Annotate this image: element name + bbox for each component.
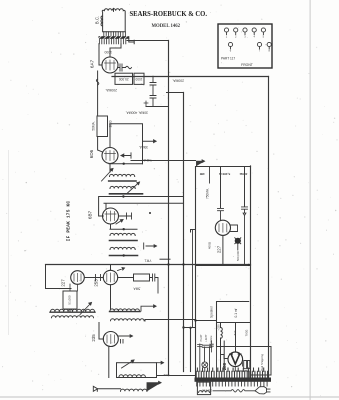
arrow 43 plate xyxy=(119,335,133,343)
wire rail horizontal y92 xyxy=(167,92,184,94)
wire y375 to strip xyxy=(157,375,196,377)
filter choke coil xyxy=(221,323,225,372)
capacitor plus mark xyxy=(144,101,148,107)
arrow into 6D6 plate xyxy=(121,153,131,158)
wire 43 cathode down xyxy=(108,346,110,378)
terminal strip teeth xyxy=(196,368,267,378)
IF transformer T2 primary xyxy=(109,174,136,181)
wire y203 xyxy=(104,203,184,209)
wire cell1 down xyxy=(220,167,222,209)
terminal strip lower teeth xyxy=(197,382,267,386)
resistor box R2 xyxy=(134,73,144,84)
IF transformer T3 top wire xyxy=(110,228,137,230)
capacitor at 6A7 plate xyxy=(118,64,126,71)
junction dot y320 xyxy=(194,319,196,321)
wire E55 cathode to osc coil xyxy=(110,285,112,309)
wire into 43 grid xyxy=(99,323,104,340)
arrow right of speaker coil xyxy=(147,381,161,391)
svg-text:B.C.: B.C. xyxy=(95,16,100,24)
output box xyxy=(117,363,157,378)
arrow 6B7 diode xyxy=(116,220,123,225)
svg-text:200MA.: 200MA. xyxy=(172,79,184,83)
tube 6A7 xyxy=(102,57,118,73)
IF transformer T3 secondary xyxy=(110,247,138,255)
junction dot box corner xyxy=(248,264,250,266)
tube 43 xyxy=(103,332,118,347)
wire grid lead to rail xyxy=(127,40,169,42)
svg-text:6: 6 xyxy=(230,49,232,53)
wire 227 down to box xyxy=(70,284,78,291)
svg-text:4: 4 xyxy=(253,35,255,39)
antenna coil core band xyxy=(99,36,130,39)
wire E55 to AVC bus xyxy=(110,265,112,271)
volume control blob xyxy=(235,238,241,244)
svg-text:500,000: 500,000 xyxy=(236,251,240,262)
capacitor marks at 211 xyxy=(210,341,214,352)
svg-text:0.1 mf: 0.1 mf xyxy=(234,308,238,317)
wire B+ horizontal y76 xyxy=(112,76,269,78)
wire antenna to 6A7 xyxy=(99,44,121,65)
wire 6D6 screen loop xyxy=(110,124,143,164)
svg-text:6D6: 6D6 xyxy=(89,149,94,158)
IF transformer T3 primary xyxy=(110,233,138,240)
capacitor after resistor xyxy=(150,274,159,293)
cathode loop 227b xyxy=(231,225,238,232)
svg-text:51,000: 51,000 xyxy=(68,295,72,305)
oscillator grid squiggle xyxy=(126,66,132,69)
wire rail vertical x183 xyxy=(183,93,185,372)
arrow at output box top xyxy=(157,361,164,364)
tube 227 second detector xyxy=(215,220,230,235)
svg-text:IF PEAK 175 KC: IF PEAK 175 KC xyxy=(65,201,71,242)
trimmer arrow osc xyxy=(80,303,92,315)
svg-text:5: 5 xyxy=(263,35,265,39)
svg-text:255: 255 xyxy=(94,279,99,287)
svg-text:LIGHT: LIGHT xyxy=(205,334,208,342)
wire under 6D6 xyxy=(109,163,143,165)
resistor box 50000 xyxy=(97,116,108,137)
svg-text:Y.M.A.: Y.M.A. xyxy=(143,158,152,162)
power transformer box xyxy=(197,382,210,395)
antenna coil core hatch xyxy=(99,36,128,39)
trimmer in output box xyxy=(122,360,135,368)
divider tick at 209 xyxy=(209,167,211,184)
wire 6D6 to IF2 xyxy=(109,164,111,173)
svg-text:Y.R1.: Y.R1. xyxy=(163,373,170,377)
svg-text:30MA. 400MA.: 30MA. 400MA. xyxy=(126,111,148,115)
wire 227b cathode down xyxy=(222,235,224,265)
tube E55 output xyxy=(103,270,117,284)
wire rail x192 segment xyxy=(192,230,194,328)
resistor box 51000 under 227 xyxy=(63,291,77,309)
capacitor with arrow xyxy=(242,207,248,265)
svg-text:1000: 1000 xyxy=(135,77,142,81)
scan artifact bottom edge xyxy=(0,396,339,398)
junction dots y327 xyxy=(182,326,191,329)
wire to rectifier anode xyxy=(235,323,237,352)
tube 227 oscillator xyxy=(71,271,85,285)
svg-text:3: 3 xyxy=(244,35,246,39)
svg-text:.5MA: .5MA xyxy=(133,287,141,291)
junction dot xyxy=(123,163,125,165)
scan artifact left edge xyxy=(7,150,10,335)
scan artifact right fold line xyxy=(310,0,311,400)
svg-text:6A7: 6A7 xyxy=(90,59,95,68)
svg-text:PILOT: PILOT xyxy=(200,334,203,342)
svg-text:50MA.: 50MA. xyxy=(91,121,95,130)
antenna coil secondary teeth xyxy=(99,39,125,44)
svg-text:+330: +330 xyxy=(217,324,221,331)
trimmer arrow IF2 primary xyxy=(102,169,114,182)
IF transformer T2 secondary xyxy=(110,186,143,193)
svg-text:6B7: 6B7 xyxy=(88,210,93,219)
pilot light capacitor marks xyxy=(198,345,212,348)
wire resistor to 6D6 xyxy=(98,137,103,153)
svg-text:YR1.: YR1. xyxy=(144,259,152,263)
speaker section box xyxy=(217,302,249,347)
wire rail vertical x190 xyxy=(190,328,192,372)
wire rail vertical x168 xyxy=(168,41,170,376)
pilot light stub wires xyxy=(200,344,210,371)
svg-text:30MA.: 30MA. xyxy=(139,145,148,149)
wire blob down xyxy=(237,244,239,250)
detector box frame xyxy=(196,167,251,266)
wire E55 plate to resistor xyxy=(118,277,134,279)
AC cord xyxy=(213,390,255,392)
wire cell3 down xyxy=(244,167,246,207)
tube 280 rectifier xyxy=(228,352,243,367)
oscillator coil left xyxy=(50,309,95,318)
antenna coil primary teeth xyxy=(104,32,126,36)
wire box left to rail xyxy=(191,230,196,233)
wire 6A7 cathode down xyxy=(97,71,99,116)
wire y322 in speaker box xyxy=(217,322,251,324)
terminal strip bar xyxy=(195,378,272,382)
svg-text:400Ω: 400Ω xyxy=(208,241,212,249)
wire rail x195 lower xyxy=(195,266,197,378)
capacitor and arrow YR1 xyxy=(144,243,157,249)
wire AVC bus y264 xyxy=(46,264,251,266)
wire speaker box edge to strip xyxy=(216,347,218,372)
junction dots on AVC bus xyxy=(167,263,184,265)
arrow AVC right xyxy=(143,140,157,143)
svg-text:400: 400 xyxy=(199,172,204,176)
socket pins bottom row xyxy=(228,42,271,52)
svg-text:2: 2 xyxy=(235,35,237,39)
tube 6B7 xyxy=(103,208,119,224)
power transformer winding xyxy=(199,391,210,393)
capacitor under cell2 xyxy=(218,208,224,219)
wire into 280 xyxy=(222,355,229,359)
speaker coil xyxy=(97,389,147,392)
output choke coil xyxy=(119,375,145,377)
tube socket layout box xyxy=(218,24,272,68)
rectifier base xyxy=(243,361,250,369)
junction dot T3 top xyxy=(123,228,125,230)
wire B+ rail vertical x268 xyxy=(268,77,270,378)
svg-text:110V.60~: 110V.60~ xyxy=(200,388,212,392)
wire box to coil xyxy=(69,309,71,312)
wire y160 to box xyxy=(131,160,196,162)
svg-text:MODEL 1462: MODEL 1462 xyxy=(152,23,181,29)
svg-text:7: 7 xyxy=(259,49,261,53)
svg-text:FRONT: FRONT xyxy=(241,63,253,67)
resistor box R1 xyxy=(115,73,133,84)
AC plug xyxy=(255,387,270,394)
pilot light bulb xyxy=(202,362,208,371)
svg-text:227: 227 xyxy=(217,245,222,253)
wire y196 xyxy=(99,197,184,217)
grid cap mark between tubes xyxy=(85,275,104,281)
svg-text:Speaker: Speaker xyxy=(210,305,214,318)
arrow right of coil xyxy=(141,305,156,311)
wire left return box xyxy=(46,265,72,289)
capacitor column xyxy=(150,76,156,106)
trimmer arrow IF2 secondary xyxy=(128,182,140,193)
svg-text:750MA.: 750MA. xyxy=(206,188,210,199)
wire y346 xyxy=(217,338,253,347)
arrow E55 top xyxy=(118,268,125,271)
oscillator coil mid xyxy=(110,309,145,321)
phono plug triangle xyxy=(93,386,97,391)
loop antenna B.C. coil xyxy=(102,9,125,32)
svg-text:400Ω: 400Ω xyxy=(239,172,247,176)
svg-text:1000: 1000 xyxy=(104,50,112,54)
cathode resistor squiggle xyxy=(96,79,99,85)
junction dot y196 xyxy=(122,195,124,197)
wire y106 xyxy=(146,106,168,108)
svg-text:200MA.: 200MA. xyxy=(105,88,117,92)
wire y319 xyxy=(145,320,196,322)
svg-text:Yellow: Yellow xyxy=(210,335,213,342)
svg-text:8mf: 8mf xyxy=(233,330,237,335)
shipping box xyxy=(251,347,272,376)
socket pins top row xyxy=(224,28,265,39)
tube 6D6 xyxy=(102,148,118,164)
svg-text:227: 227 xyxy=(61,279,66,287)
wire antenna coil to tuning xyxy=(129,39,134,44)
junction dot T3 bottom xyxy=(123,254,125,256)
svg-text:25,000: 25,000 xyxy=(119,77,129,81)
wire y327 xyxy=(184,327,196,329)
wire rail vertical x250 xyxy=(250,166,252,378)
svg-text:SEARS-ROEBUCK & CO.: SEARS-ROEBUCK & CO. xyxy=(130,9,208,18)
wire short y259 xyxy=(160,258,170,260)
svg-text:8: 8 xyxy=(268,49,270,53)
wire y320 to speaker box xyxy=(196,320,217,322)
arrow on box top xyxy=(197,160,205,166)
resistor box 5MA xyxy=(134,274,150,281)
wire 280 cathode out xyxy=(235,367,248,378)
junction dot right xyxy=(149,212,151,214)
wire 6B7 to IF3 xyxy=(110,224,112,229)
grid cap mark H xyxy=(119,213,132,219)
svg-text:700Ω: 700Ω xyxy=(245,330,249,337)
svg-text:PART 117: PART 117 xyxy=(221,57,235,61)
svg-text:1: 1 xyxy=(226,35,228,39)
